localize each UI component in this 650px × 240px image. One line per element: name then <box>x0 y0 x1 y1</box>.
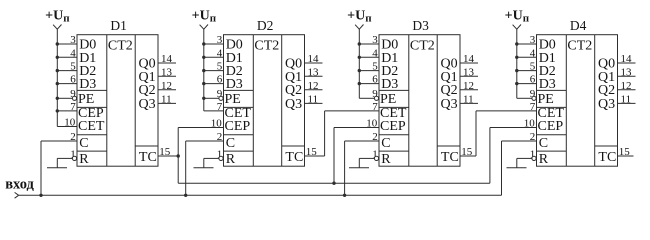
svg-text:Q3: Q3 <box>285 97 302 112</box>
svg-text:R: R <box>381 152 391 167</box>
svg-text:TC: TC <box>139 150 157 165</box>
D2 PE inversion bubble <box>219 96 223 100</box>
wire +Up bus vertical D1 <box>56 29 58 127</box>
wire TC3 riser to D4 CET (pin 7) <box>476 111 537 156</box>
svg-text:PE: PE <box>538 92 554 107</box>
svg-text:D4: D4 <box>570 18 587 33</box>
wire D2 pin 9 PE stub <box>202 97 219 100</box>
wire D4 pin 7 stub <box>0 0 1 1</box>
ground bar for D1 R <box>47 167 67 169</box>
wire vhod input net horizontal <box>19 194 502 196</box>
D3 output labels Q0-Q3 TC <box>441 57 459 165</box>
wire D4 pin 9 PE stub <box>517 97 532 99</box>
vhod input connector arrow <box>15 192 19 198</box>
wire D3 pin 2 C stub + riser to input net <box>343 141 379 197</box>
D2 output labels Q0-Q3 TC <box>285 57 303 165</box>
wire D2 pin 7 stub <box>204 110 224 112</box>
D3 R inversion bubble <box>374 156 378 160</box>
ground bar for D2 R <box>194 167 214 169</box>
D2 R inversion bubble <box>219 156 223 160</box>
wire D1 pin 3 stub + junction <box>56 42 77 45</box>
D4 right pin numbers 14 13 12 11 15 <box>619 53 632 158</box>
svg-text:Q3: Q3 <box>598 97 615 112</box>
D3 output pin stubs Q0-Q3 <box>460 63 478 103</box>
wire +Up bus vertical D4 <box>516 29 518 98</box>
wire TC D1 stub (pin 15) + junction <box>158 154 180 157</box>
svg-text:Q3: Q3 <box>441 97 458 112</box>
wire D4 pin 5 stub + junction <box>515 69 536 72</box>
D3 left pin numbers 3 4 5 6 9 7 10 2 1 <box>366 34 378 160</box>
power symbol +Up for D3 <box>347 8 372 29</box>
wire D3 pin 1 R to ground <box>359 158 374 167</box>
svg-text:вход: вход <box>5 177 34 193</box>
wire D3 pin 5 stub + junction <box>358 69 379 72</box>
wire TC D3 stub (pin 15) <box>460 155 476 157</box>
wire D4 pin 1 R to ground <box>517 158 532 167</box>
svg-text:CEP: CEP <box>380 119 406 134</box>
D2 left pin numbers 3 4 5 6 9 7 10 2 1 <box>211 34 223 160</box>
wire TC1 riser to D2 CEP (pin 10) <box>178 128 223 184</box>
counter D3 IC box (CT2) <box>379 35 460 167</box>
svg-text:D3: D3 <box>79 77 96 92</box>
D4 R inversion bubble <box>532 156 536 160</box>
svg-text:TC: TC <box>598 150 616 165</box>
wire D1 pin 1 R to ground <box>57 158 72 167</box>
counter D4 IC box (CT2) <box>537 35 618 167</box>
svg-text:R: R <box>79 152 89 167</box>
wire D3 pin 6 stub + junction <box>358 82 379 85</box>
D4 output labels Q0-Q3 TC <box>598 57 616 165</box>
D4 input labels D0-D3 PE CET CEP C R <box>538 38 565 167</box>
wire D1 pin 9 PE stub <box>56 97 73 100</box>
wire TC D2 stub (pin 15) <box>305 155 325 157</box>
D1 R inversion bubble <box>72 156 76 160</box>
svg-text:PE: PE <box>380 92 396 107</box>
svg-text:PE: PE <box>78 92 94 107</box>
power symbol +Up for D2 <box>192 8 217 29</box>
counter D2 IC box (CT2) <box>224 35 305 167</box>
wire D4 CEP (pin 10) riser to TC1 bus <box>490 128 537 184</box>
wire D1 pin 6 stub + junction <box>56 82 77 85</box>
wire D3 CEP (pin 10) riser to TC1 bus + junction <box>332 128 379 185</box>
svg-text:CEP: CEP <box>225 119 251 134</box>
D2 output pin stubs Q0-Q3 <box>305 63 323 103</box>
wire D2 pin 4 stub + junction <box>202 56 223 59</box>
svg-text:R: R <box>539 152 549 167</box>
wire D1 pin 5 stub + junction <box>56 69 77 72</box>
wire TC D4 stub (pin 15) open <box>618 155 634 157</box>
wire D2 pin 3 stub + junction <box>202 42 223 45</box>
wire TC2 riser to D3 CET (pin 7) <box>325 111 379 156</box>
wire D3 pin 4 stub + junction <box>358 56 379 59</box>
D1 input labels D0-D3 PE CEP CET C R <box>78 38 105 167</box>
svg-text:D3: D3 <box>226 77 243 92</box>
svg-text:CT2: CT2 <box>567 39 592 54</box>
D1 left pin numbers 3 4 5 6 9 7 10 2 1 <box>64 34 76 160</box>
wire D3 pin 7 stub <box>0 0 1 1</box>
ground bar for D4 R <box>507 167 527 169</box>
svg-text:CT2: CT2 <box>410 39 435 54</box>
wire D4 pin 3 stub + junction <box>515 42 536 45</box>
svg-text:C: C <box>539 136 548 151</box>
svg-text:Q3: Q3 <box>139 97 156 112</box>
D2 input labels D0-D3 PE CET CEP C R <box>225 38 252 167</box>
svg-text:CT2: CT2 <box>254 39 279 54</box>
wire D3 pin 3 stub + junction <box>358 42 379 45</box>
wire D4 pin 2 C stub + riser to input net <box>502 141 537 195</box>
wire D2 pin 2 C stub + riser to input net <box>184 141 224 197</box>
D1 right pin numbers 14 13 12 11 15 <box>159 53 172 158</box>
svg-text:CET: CET <box>78 119 105 134</box>
svg-text:TC: TC <box>285 150 303 165</box>
svg-text:R: R <box>226 152 236 167</box>
D3 input labels D0-D3 PE CET CEP C R <box>380 38 407 167</box>
wire TC1 carry bus horizontal <box>178 182 490 184</box>
svg-text:TC: TC <box>441 150 459 165</box>
D4 output pin stubs Q0-Q3 <box>618 63 636 103</box>
svg-text:C: C <box>226 136 235 151</box>
wire D1 pin 2 C stub + riser to input net <box>39 141 77 197</box>
svg-text:CEP: CEP <box>538 119 564 134</box>
wire D3 pin 9 PE stub <box>359 97 374 99</box>
wire D4 pin 6 stub + junction <box>515 82 536 85</box>
wire +Up bus vertical D2 <box>203 29 205 111</box>
D4 PE inversion bubble <box>532 96 536 100</box>
wire D4 pin 4 stub + junction <box>515 56 536 59</box>
wire D2 pin 5 stub + junction <box>202 69 223 72</box>
svg-text:C: C <box>381 136 390 151</box>
wire D1 pin 4 stub + junction <box>56 56 77 59</box>
svg-text:D3: D3 <box>412 18 429 33</box>
D4 left pin numbers 3 4 5 6 9 7 10 2 1 <box>524 34 536 160</box>
wire D2 pin 1 R to ground <box>204 158 219 167</box>
D3 PE inversion bubble <box>374 96 378 100</box>
svg-text:D2: D2 <box>257 18 274 33</box>
power symbol +Up for D4 <box>505 8 530 29</box>
D2 right pin numbers 14 13 12 11 15 <box>306 53 319 158</box>
wire +Up bus vertical D3 <box>358 29 360 98</box>
D1 output labels Q0-Q3 TC <box>139 57 157 165</box>
wire D1 pin 7 stub <box>56 109 77 112</box>
svg-text:C: C <box>79 136 88 151</box>
wire D2 pin 6 stub + junction <box>202 82 223 85</box>
wire D1 pin 10 stub from +Up bus <box>57 126 77 128</box>
ground bar for D3 R <box>349 167 369 169</box>
D3 right pin numbers 14 13 12 11 15 <box>461 53 474 158</box>
svg-text:D1: D1 <box>110 18 127 33</box>
svg-text:PE: PE <box>225 92 241 107</box>
counter D1 IC box (CT2) <box>77 35 158 167</box>
svg-text:CT2: CT2 <box>108 39 133 54</box>
D1 output pin stubs Q0-Q3 <box>158 63 176 103</box>
power symbol +Up for D1 <box>45 8 70 29</box>
svg-text:D3: D3 <box>381 77 398 92</box>
svg-text:D3: D3 <box>539 77 556 92</box>
D1 PE inversion bubble <box>72 96 76 100</box>
